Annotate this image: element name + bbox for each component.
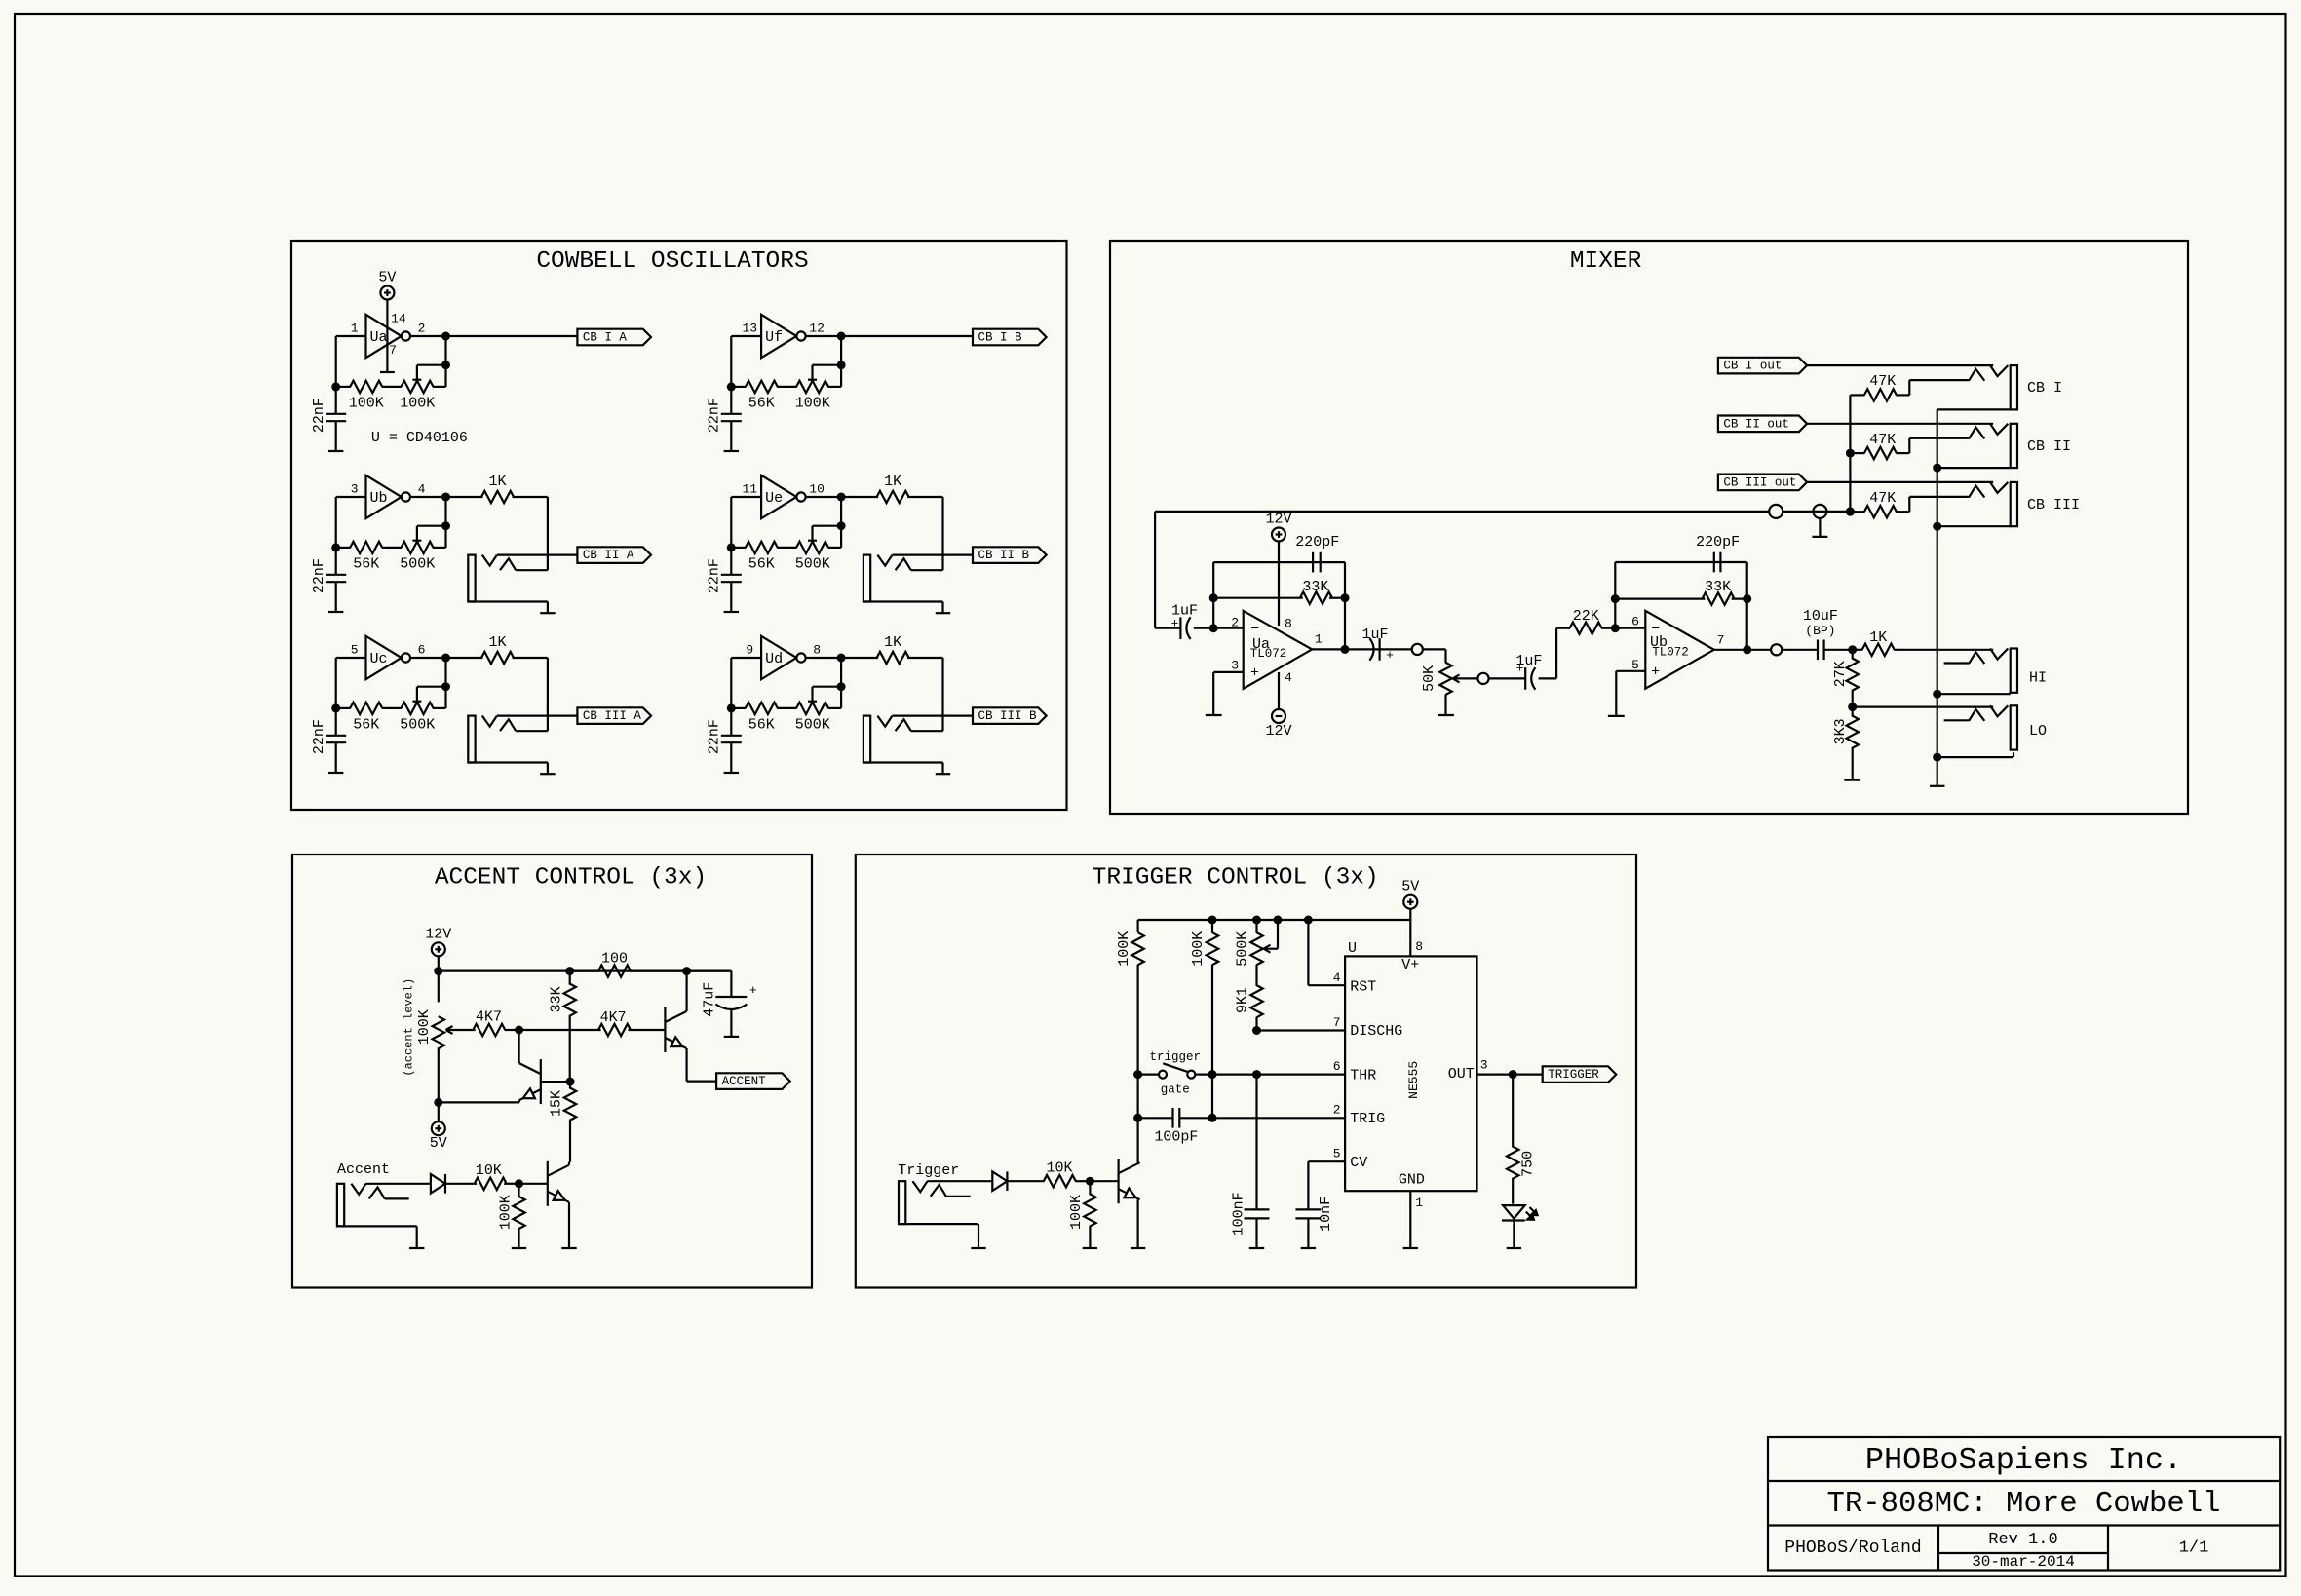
svg-text:100K: 100K <box>416 1009 433 1045</box>
resistor 47K (CB III) <box>1850 511 1864 513</box>
diode D2 (trigger) <box>992 1171 1007 1191</box>
wire Ud input vertical <box>730 658 732 708</box>
inverter Ub <box>366 475 402 518</box>
svg-text:500K: 500K <box>795 556 830 573</box>
node rail / 47K III <box>1846 507 1855 515</box>
wire wiper to 1uF <box>1489 677 1526 679</box>
ground (jack Ud) <box>936 773 950 775</box>
svg-text:DISCHG: DISCHG <box>1350 1023 1402 1040</box>
svg-text:TR-808MC: More Cowbell: TR-808MC: More Cowbell <box>1827 1488 2221 1521</box>
wire feedback2 right vertical <box>1746 562 1748 650</box>
capacitor 220pF (Ub feedback) <box>1713 552 1715 573</box>
svg-text:5: 5 <box>351 642 359 657</box>
wire sleeve CB I <box>1937 408 2011 410</box>
diode D1 (accent) <box>431 1174 445 1194</box>
potentiometer 100K (accent level) <box>438 971 440 1003</box>
net label ACCENT <box>716 1073 790 1089</box>
wire feedback1 left vertical <box>1212 562 1214 628</box>
svg-text:47uF: 47uF <box>702 982 718 1017</box>
svg-text:1K: 1K <box>1869 629 1887 646</box>
svg-text:3: 3 <box>1231 659 1239 673</box>
wire Ud wiper <box>813 686 842 688</box>
svg-text:4: 4 <box>1285 670 1292 685</box>
wire Q2 emitter vertical <box>685 1048 687 1082</box>
wire Ub feedback vertical <box>444 497 446 548</box>
node 27K/3K3/LO <box>1848 703 1857 711</box>
wire Ub input <box>336 496 366 498</box>
jack Accent input <box>337 1184 344 1227</box>
node left vert / switch <box>1133 1070 1142 1079</box>
svg-text:9K1: 9K1 <box>1235 987 1251 1013</box>
capacitor 10uF BP <box>1817 640 1819 661</box>
node feedback2 right <box>1743 594 1751 603</box>
svg-text:CB I A: CB I A <box>583 331 628 345</box>
capacitor 1uF (to Ub, polarized) <box>1524 667 1526 690</box>
svg-text:U = CD40106: U = CD40106 <box>371 430 468 446</box>
svg-text:CB III: CB III <box>2027 497 2080 513</box>
svg-text:500K: 500K <box>400 556 435 573</box>
switch trigger/gate <box>1159 1071 1167 1079</box>
wire pin4 to -12V <box>1278 672 1280 709</box>
svg-text:Ua: Ua <box>369 329 387 346</box>
ground (Uf cap) <box>724 450 739 452</box>
wiper 500K <box>1277 920 1279 949</box>
wire Uf feedback vertical <box>840 336 842 387</box>
wire Ue output <box>806 496 841 498</box>
svg-text:22nF: 22nF <box>707 398 723 433</box>
title block rev/date divider <box>1938 1552 2108 1554</box>
wire pin 7 DISCHG <box>1257 1029 1346 1031</box>
node 10K/100K/base (trigger) <box>1086 1177 1094 1186</box>
op-amp Ua TL072 <box>1244 611 1313 689</box>
svg-text:TL072: TL072 <box>1250 647 1287 661</box>
net label CB II out <box>1718 416 1807 433</box>
wire pin6 to op-amp <box>1615 627 1645 629</box>
wire Uf output <box>806 335 841 337</box>
svg-text:CB II: CB II <box>2027 438 2071 455</box>
node rail/100K2 <box>1208 916 1217 925</box>
resistor 1K (Ub) <box>446 496 483 498</box>
svg-text:7: 7 <box>1333 1015 1341 1030</box>
wire pin 4 RST <box>1307 920 1309 985</box>
capacitor 22nF (Ub) <box>335 548 337 575</box>
resistor 4K7 (right) <box>598 1024 631 1036</box>
wire trigger jack switch stub <box>946 1196 971 1197</box>
svg-text:CB I: CB I <box>2027 380 2062 397</box>
node pot bottom / Q1 emitter <box>434 1098 442 1107</box>
ground (Ub pin5) <box>1608 715 1625 717</box>
connector pin (rail) <box>1769 505 1783 518</box>
wire Ue feedback vertical <box>840 497 842 548</box>
svg-text:6: 6 <box>1631 615 1639 629</box>
svg-text:13: 13 <box>742 321 757 335</box>
node rail/pot <box>434 967 442 975</box>
wire left vert to switch <box>1138 1073 1159 1075</box>
wire Q4 emitter vertical <box>1136 1199 1138 1248</box>
resistor 1K (Uc) <box>446 657 483 659</box>
wire 1K to jack switch <box>941 497 943 570</box>
svg-text:7: 7 <box>389 343 397 358</box>
svg-text:V+: V+ <box>1401 957 1419 973</box>
ground (trigger 100K) <box>1083 1247 1097 1249</box>
svg-text:+: + <box>749 983 757 998</box>
wire accent jack sleeve <box>337 1225 417 1227</box>
svg-text:ACCENT CONTROL (3x): ACCENT CONTROL (3x) <box>435 865 707 892</box>
ground (Ua cap) <box>328 450 343 452</box>
ground (NE555 pin1) <box>1403 1247 1418 1249</box>
wire 47K riser to switch <box>1908 380 1910 395</box>
svg-text:OUT: OUT <box>1448 1066 1475 1083</box>
svg-text:12V: 12V <box>1265 512 1291 528</box>
wire Ue input <box>731 496 761 498</box>
wire 1K to jack switch <box>941 658 943 731</box>
svg-text:1K: 1K <box>884 634 901 651</box>
node Ua output junction <box>441 332 450 341</box>
svg-text:5: 5 <box>1333 1147 1341 1161</box>
ground (10nF) <box>1301 1247 1316 1249</box>
wire sleeve CB III <box>1937 525 2011 527</box>
wire Ub output <box>1714 649 1771 651</box>
resistor 47K (CB I) <box>1850 394 1864 396</box>
transistor Q2 <box>664 1007 666 1052</box>
resistor 1K (Ue) <box>841 496 878 498</box>
wire HI sleeve <box>1937 693 2011 695</box>
wire feedback1 33K rail <box>1213 597 1303 599</box>
wire jack tip to label <box>497 714 578 716</box>
svg-text:7: 7 <box>1717 632 1725 647</box>
wire trigger top rail <box>1138 919 1411 921</box>
svg-text:1K: 1K <box>488 634 506 651</box>
wire pot to 5V <box>438 1102 440 1121</box>
power 5V (accent) <box>432 1121 445 1135</box>
svg-text:220pF: 220pF <box>1696 534 1740 551</box>
wire Ua input vertical <box>335 336 337 387</box>
node Uf wiper junction <box>837 361 846 369</box>
node TRIG/100K2 <box>1208 1114 1217 1122</box>
connector pin (rail 2) <box>1813 505 1826 518</box>
wire Q3 collector vertical <box>568 1162 570 1165</box>
svg-text:CB I out: CB I out <box>1723 360 1782 373</box>
wire base Qt <box>1090 1180 1118 1182</box>
svg-text:4: 4 <box>1333 970 1341 985</box>
svg-text:12: 12 <box>809 321 825 335</box>
svg-text:(BP): (BP) <box>1805 624 1835 638</box>
svg-text:1K: 1K <box>488 474 506 490</box>
transistor Q1 <box>540 1059 542 1104</box>
node feedback1 right <box>1341 593 1350 602</box>
connector pin (Ua out) <box>1412 644 1423 655</box>
title block divider 2 <box>1768 1524 2280 1526</box>
section box MIXER <box>1110 241 2188 814</box>
connector pin (50K wiper) <box>1477 673 1488 684</box>
capacitor 100nF <box>1255 1075 1257 1210</box>
wire feedback1 top rail <box>1213 561 1345 563</box>
wire pin 1 GND <box>1409 1191 1411 1248</box>
wire rail vertical <box>1154 512 1156 628</box>
wire rail left vertical <box>1136 920 1138 932</box>
svg-text:30-mar-2014: 30-mar-2014 <box>1972 1553 2075 1571</box>
wire between pins <box>1783 511 1850 513</box>
svg-text:ACCENT: ACCENT <box>722 1075 767 1088</box>
resistor 56K (Uf feedback) <box>731 386 746 388</box>
ground (Ue cap) <box>724 611 739 613</box>
svg-text:trigger: trigger <box>1150 1050 1202 1064</box>
wire 47K left bus <box>1849 395 1851 512</box>
svg-text:COWBELL OSCILLATORS: COWBELL OSCILLATORS <box>536 248 808 275</box>
svg-text:6: 6 <box>1333 1059 1341 1074</box>
wire pin3 ground vertical <box>1212 672 1214 715</box>
svg-text:8: 8 <box>813 642 821 657</box>
net label CB III B <box>973 707 1047 724</box>
resistor 56K (Uc feedback) <box>336 707 351 709</box>
net label CB III out <box>1718 475 1807 491</box>
svg-text:10K: 10K <box>1046 1159 1072 1176</box>
svg-text:4: 4 <box>418 481 426 496</box>
resistor 1K (Ud) <box>841 657 878 659</box>
svg-text:CB I B: CB I B <box>978 331 1023 345</box>
svg-text:1uF: 1uF <box>1361 627 1388 643</box>
net label CB III A <box>577 707 651 724</box>
wire base Q3 <box>519 1183 548 1185</box>
jack HI <box>2011 649 2017 693</box>
node 100K2/THR <box>1208 1070 1217 1079</box>
wire Uf wiper <box>813 364 842 366</box>
node op-amp Ua pin2 <box>1209 624 1218 632</box>
svg-text:27K: 27K <box>1832 661 1849 687</box>
svg-text:50K: 50K <box>1421 665 1438 692</box>
capacitor 22nF (Ue) <box>730 548 732 575</box>
wire Uc input <box>336 657 366 659</box>
svg-text:+: + <box>1250 665 1259 682</box>
svg-text:−: − <box>1250 622 1259 638</box>
capacitor 22nF (Uc) <box>335 708 337 736</box>
resistor 56K (Ub feedback) <box>336 547 351 549</box>
wire jack sleeve <box>863 600 943 602</box>
svg-text:(accent level): (accent level) <box>403 978 416 1077</box>
resistor 100K (trigger pulldown) <box>1089 1181 1091 1195</box>
ground (jack Ue) <box>936 612 950 614</box>
ground (rail pin) <box>1812 536 1827 538</box>
ground (jack Ub) <box>540 612 555 614</box>
wire Q2 emitter to label <box>687 1080 717 1082</box>
capacitor 10nF <box>1295 1208 1321 1210</box>
wire jack switch stub <box>911 569 943 571</box>
wire to 10uF <box>1782 649 1818 651</box>
svg-text:Trigger: Trigger <box>898 1162 959 1179</box>
wire 1K to jack switch <box>547 497 549 570</box>
wire trigger jack sleeve <box>899 1223 978 1225</box>
wire feedback1 right vertical <box>1344 562 1346 649</box>
wire Ua feedback vertical <box>444 336 446 387</box>
resistor 33K (Ub feedback) <box>1703 592 1735 604</box>
wire Uc feedback vertical <box>444 658 446 708</box>
wire pin2 to op-amp <box>1213 627 1244 629</box>
svg-text:500K: 500K <box>400 717 435 734</box>
potentiometer 50K <box>1439 663 1451 695</box>
jack CB out (Uc) <box>468 716 475 763</box>
wire accent top rail <box>439 969 732 971</box>
node Q1 base / 33K-15K <box>566 1078 575 1086</box>
node rail/wiper <box>1274 916 1283 925</box>
wire feedback2 left vertical <box>1614 562 1616 628</box>
node Ue output junction <box>837 493 846 502</box>
wire jack sleeve <box>863 761 943 763</box>
node Ub output <box>1743 645 1751 654</box>
wire accent jack switch stub <box>385 1197 409 1199</box>
svg-text:TRIG: TRIG <box>1350 1111 1385 1127</box>
wire pin 5 CV <box>1308 1160 1345 1162</box>
svg-text:Uc: Uc <box>369 651 387 667</box>
svg-text:CB II B: CB II B <box>978 549 1030 562</box>
wire jack sleeve bus <box>1937 409 1938 785</box>
svg-text:5V: 5V <box>378 270 396 286</box>
svg-text:33K: 33K <box>1705 579 1731 595</box>
net label CB I B <box>973 329 1047 346</box>
wire Q1 collector vertical <box>518 1030 519 1063</box>
svg-text:22K: 22K <box>1573 608 1599 625</box>
power -12V (Ua pin4) <box>1272 709 1285 723</box>
wire pin3 <box>1213 671 1244 673</box>
title block frame <box>1768 1437 2280 1571</box>
jack CB III <box>2011 482 2017 526</box>
resistor 3K3 <box>1852 707 1854 717</box>
svg-text:56K: 56K <box>748 556 775 573</box>
node rail/Q2 collector <box>682 967 691 975</box>
svg-text:56K: 56K <box>748 717 775 734</box>
ground (Q4 emitter) <box>1131 1247 1145 1249</box>
svg-text:22nF: 22nF <box>311 719 327 754</box>
capacitor 1uF (Ua out, polarized) <box>1378 638 1380 661</box>
wire accent jack tip <box>365 1183 431 1185</box>
svg-text:1K: 1K <box>884 474 901 490</box>
svg-text:10K: 10K <box>476 1162 502 1179</box>
trimpot 500K (Uc feedback) <box>402 703 434 714</box>
svg-text:3K3: 3K3 <box>1832 718 1849 744</box>
svg-text:220pF: 220pF <box>1295 534 1339 551</box>
wire Ub output <box>411 496 446 498</box>
svg-text:10: 10 <box>809 481 825 496</box>
wire jack tip to label <box>497 553 578 555</box>
wire Uc output <box>411 657 446 659</box>
svg-text:Ue: Ue <box>765 490 783 507</box>
wire HI switch stub <box>1944 662 1970 664</box>
svg-text:8: 8 <box>1285 617 1292 631</box>
svg-text:10nF: 10nF <box>1318 1197 1334 1232</box>
trimpot 500K (Ue feedback) <box>796 542 828 553</box>
ground (LED) <box>1507 1247 1521 1249</box>
svg-text:CB II out: CB II out <box>1723 417 1789 431</box>
resistor 100K (accent pulldown) <box>518 1184 519 1197</box>
svg-text:33K: 33K <box>548 986 564 1012</box>
power 12V (accent) <box>432 942 445 956</box>
svg-text:THR: THR <box>1350 1068 1376 1084</box>
ground (Ua pin3) <box>1206 714 1222 716</box>
wire Ub wiper <box>417 525 446 527</box>
wire Ua output <box>411 335 446 337</box>
wire Uc wiper <box>417 686 446 688</box>
wire jack tip to label <box>893 553 974 555</box>
node Ud output junction <box>837 654 846 663</box>
svg-text:1: 1 <box>351 321 359 335</box>
wire Ua wiper <box>417 364 446 366</box>
section box TRIGGER CONTROL <box>856 855 1636 1288</box>
wiper 50K <box>1453 677 1478 679</box>
wire Q4 collector vertical <box>1136 1118 1138 1162</box>
svg-text:NE555: NE555 <box>1406 1061 1421 1099</box>
svg-text:LO: LO <box>2029 723 2047 740</box>
svg-text:Uf: Uf <box>765 329 783 346</box>
node 100pF/collector <box>1133 1114 1142 1122</box>
svg-text:Accent: Accent <box>337 1161 390 1178</box>
jack CB II <box>2011 424 2017 468</box>
section box COWBELL OSCILLATORS <box>291 241 1067 810</box>
wire Q1 base <box>541 1081 570 1083</box>
title block divider 1 <box>1768 1480 2280 1482</box>
svg-text:TRIGGER: TRIGGER <box>1548 1068 1599 1082</box>
jack CB I <box>2011 365 2017 409</box>
power 5V (trigger) <box>1403 895 1417 909</box>
wire 47K riser to switch <box>1908 438 1910 453</box>
svg-text:+: + <box>1651 665 1660 681</box>
svg-text:5V: 5V <box>430 1135 447 1152</box>
wire left vert to TRIG row <box>1136 1075 1138 1119</box>
wire Uf input <box>731 335 761 337</box>
resistor 22K <box>1570 623 1602 634</box>
capacitor 1uF (input, polarized) <box>1155 627 1180 629</box>
wire Uf input vertical <box>730 336 732 387</box>
inverter Ud <box>761 636 796 679</box>
node rail/RST <box>1304 916 1313 925</box>
resistor 750 <box>1512 1075 1514 1148</box>
node 4K7/Q1 collector <box>515 1026 523 1035</box>
ground (100nF) <box>1249 1247 1264 1249</box>
wire Ua input <box>336 335 366 337</box>
wire CB I out to jack tip <box>1807 364 1993 366</box>
trimpot 100K (Uf feedback) <box>796 381 828 393</box>
svg-text:HI: HI <box>2029 670 2047 687</box>
node sleeve bus (CB II) <box>1933 464 1941 473</box>
svg-text:TL072: TL072 <box>1652 646 1689 660</box>
net label CB II A <box>577 547 651 563</box>
resistor 100K #1 (trigger) <box>1131 932 1143 965</box>
svg-text:22nF: 22nF <box>707 558 723 593</box>
inverter Uc <box>366 636 402 679</box>
svg-text:gate: gate <box>1161 1083 1190 1097</box>
wire pin5 ground vertical <box>1615 671 1617 716</box>
svg-text:5: 5 <box>1631 658 1639 672</box>
trimpot 100K (Ua feedback) <box>402 381 434 393</box>
ground (accent 100K) <box>512 1247 526 1249</box>
svg-text:56K: 56K <box>748 396 775 412</box>
svg-text:500K: 500K <box>1235 931 1251 967</box>
node Ub cap junction <box>331 543 340 551</box>
svg-text:+: + <box>1171 616 1179 630</box>
resistor 100 (accent) <box>570 969 599 971</box>
svg-text:5V: 5V <box>1401 879 1419 895</box>
svg-text:100nF: 100nF <box>1231 1192 1247 1235</box>
node Ud cap junction <box>727 703 736 712</box>
node Ue wiper junction <box>837 521 846 530</box>
capacitor 22nF (Ua) <box>335 387 337 414</box>
node 9K1/DISCHG <box>1252 1026 1261 1035</box>
wire 5V to pin 8 <box>1409 920 1411 956</box>
net label CB I A <box>577 329 651 346</box>
net label CB I out <box>1718 358 1807 374</box>
node OUT/750 <box>1509 1070 1517 1079</box>
svg-text:12V: 12V <box>425 926 451 942</box>
wire 4K7 junction to 4K7 right <box>519 1029 601 1031</box>
capacitor 47uF (polarized) <box>715 996 747 998</box>
